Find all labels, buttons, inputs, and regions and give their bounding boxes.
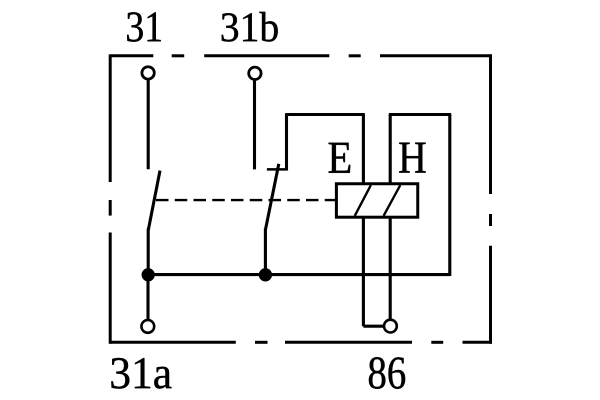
E loop top wire	[287, 113, 365, 116]
terminal 86 label	[369, 357, 405, 389]
terminal 31b circle	[249, 67, 261, 79]
mechanical link dashed line	[156, 199, 336, 201]
E loop left vertical wire	[285, 113, 288, 170]
label H	[399, 143, 425, 173]
terminal 31 label	[127, 12, 161, 41]
switch 2 blade (contact arm)	[265, 164, 278, 230]
wire below switch 1 to junction	[147, 229, 150, 275]
terminal 31a label	[111, 358, 171, 389]
H wire vertical, below bimetal box to terminal 86	[389, 217, 392, 319]
terminal 86 circle	[384, 320, 397, 333]
H loop top wire	[389, 113, 451, 116]
component outline border, right edge	[489, 54, 492, 343]
H wire vertical, above bimetal box	[389, 115, 392, 184]
terminal 31 circle	[142, 67, 154, 79]
bimetal/heater box	[336, 184, 417, 217]
E wire bottom elbow to terminal 86	[363, 325, 383, 328]
E wire vertical, below bimetal box to elbow	[362, 217, 365, 326]
wire below switch 2 to junction	[264, 229, 267, 275]
E wire vertical, above bimetal box	[362, 115, 365, 184]
junction dot B (31b branch node)	[259, 268, 272, 281]
wire from terminal 31b down to switch 2	[253, 81, 256, 170]
junction dot A (31/31a node)	[142, 268, 155, 281]
junction wire (horizontal bus to H loop)	[148, 273, 450, 276]
component outline border, bottom edge	[110, 341, 492, 344]
wire from terminal 31 down to switch 1	[147, 80, 150, 169]
bimetal box hatch diagonal 2	[384, 185, 401, 216]
terminal 31a circle	[141, 320, 154, 333]
label E	[329, 143, 351, 173]
component outline border (dash-dot), top edge	[110, 54, 492, 57]
switch 1 blade (contact arm)	[148, 171, 160, 230]
switch 2 contact tick to E branch	[267, 168, 288, 170]
wire from junction dot A down to terminal 31a	[146, 275, 149, 319]
component outline border, left edge	[109, 54, 112, 343]
H loop right vertical wire	[448, 115, 451, 277]
terminal 31b label	[222, 12, 278, 42]
bimetal box hatch diagonal 1	[355, 185, 371, 216]
